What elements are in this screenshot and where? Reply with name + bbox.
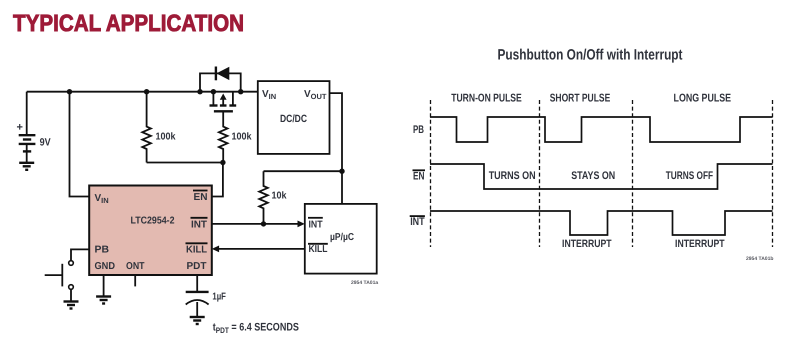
ground capacitor [190, 317, 205, 324]
waveform EN [430, 164, 773, 189]
svg-text:INT: INT [309, 219, 323, 230]
svg-text:SHORT PULSE: SHORT PULSE [550, 92, 611, 104]
label INT [410, 216, 425, 228]
label EN [413, 170, 426, 182]
svg-text:PB: PB [95, 245, 110, 256]
resistor R1 100k [142, 92, 176, 163]
node EN junction [220, 160, 225, 165]
svg-text:100k: 100k [156, 132, 176, 143]
svg-text:tPDT = 6.4 SECONDS: tPDT = 6.4 SECONDS [213, 322, 299, 336]
svg-text:TYPICAL APPLICATION: TYPICAL APPLICATION [13, 10, 244, 36]
node 100k1 top junction [144, 89, 149, 94]
capacitor C1 1uF [186, 292, 226, 318]
timing dashed line 2 [539, 100, 541, 247]
node diode right junction [238, 89, 243, 94]
label TURNS OFF [666, 170, 713, 182]
resistor R2 100k [219, 111, 252, 162]
svg-text:2954 TA01b: 2954 TA01b [746, 256, 773, 262]
wire ONT stub [134, 275, 136, 286]
wire VOUT rail to uP top [341, 171, 343, 204]
svg-text:EN: EN [194, 192, 208, 203]
label LONG PULSE [674, 92, 732, 104]
svg-text:PB: PB [413, 124, 424, 136]
svg-text:TURNS OFF: TURNS OFF [666, 170, 713, 182]
svg-text:GND: GND [95, 261, 116, 272]
transistor Q1 PMOS [210, 92, 237, 112]
svg-text:INTERRUPT: INTERRUPT [675, 238, 725, 250]
svg-text:+: + [17, 122, 23, 134]
svg-text:LONG PULSE: LONG PULSE [674, 92, 732, 104]
wire PB pin to switch [71, 249, 89, 260]
wire KILL line with arrow [212, 246, 305, 253]
label INTERRUPT 1 [562, 238, 612, 250]
svg-text:STAYS ON: STAYS ON [571, 170, 615, 182]
label TURNS ON [489, 170, 536, 182]
resistor R3 10k [259, 171, 287, 224]
label SHORT PULSE [550, 92, 611, 104]
node diode left junction [197, 89, 202, 94]
wire VOUT to rail [330, 93, 343, 171]
wire R1 bottom to EN node [147, 162, 223, 164]
svg-text:KILL: KILL [186, 244, 207, 255]
label tPDT time [213, 322, 299, 336]
switch S1 pushbutton [45, 261, 74, 290]
timing dashed line 3 [632, 100, 634, 247]
battery BT1 9V [17, 92, 51, 163]
diode D1 body diode [200, 67, 241, 92]
svg-text:INT: INT [410, 216, 425, 228]
timing diagram title [498, 47, 683, 64]
waveform PB [430, 117, 773, 142]
svg-text:TURNS ON: TURNS ON [489, 170, 536, 182]
svg-text:10k: 10k [272, 191, 287, 202]
wire VOUT rail horizontal [264, 170, 343, 172]
wire GND pin to ground [103, 275, 105, 297]
svg-text:KILL: KILL [309, 244, 328, 255]
svg-text:1µF: 1µF [212, 292, 226, 303]
svg-text:2954 TA01a: 2954 TA01a [351, 280, 378, 286]
ground GND pin [96, 297, 111, 304]
wire top rail [27, 91, 258, 93]
op-amp U2 DC/DC block [258, 81, 330, 154]
wire EN node to EN pin [212, 163, 223, 197]
svg-text:PDT: PDT [187, 261, 207, 272]
waveform INT [430, 211, 773, 235]
svg-text:ONT: ONT [126, 261, 145, 272]
wire INT line with arrow [212, 221, 305, 228]
IC U3 uP/uC block [305, 204, 377, 274]
label 2954 TA01a [351, 280, 378, 286]
svg-text:9V: 9V [40, 137, 51, 149]
label PB [413, 124, 424, 136]
wire PDT pin to cap [196, 275, 198, 292]
svg-text:LTC2954-2: LTC2954-2 [131, 216, 175, 227]
svg-text:INT: INT [191, 219, 207, 230]
node battery-rail junction [67, 89, 72, 94]
svg-text:TURN-ON PULSE: TURN-ON PULSE [451, 92, 522, 104]
node INT junction [261, 221, 266, 226]
title TYPICAL APPLICATION [13, 10, 244, 36]
wire rail to VIN pin [70, 92, 90, 197]
IC U1 LTC2954-2 [89, 186, 212, 276]
timing dashed line 4 [772, 100, 774, 247]
svg-text:Pushbutton On/Off with Interru: Pushbutton On/Off with Interrupt [498, 47, 683, 64]
label TURN-ON PULSE [451, 92, 522, 104]
node mosfet source junction [211, 89, 216, 94]
svg-text:INTERRUPT: INTERRUPT [562, 238, 612, 250]
svg-text:µP/µC: µP/µC [330, 232, 354, 243]
timing dashed line 1 [430, 100, 432, 247]
svg-text:100k: 100k [232, 132, 252, 143]
svg-text:EN: EN [413, 171, 425, 183]
label INTERRUPT 2 [675, 238, 725, 250]
node VOUT rail junction [339, 169, 344, 174]
label 2954 TA01b [746, 256, 773, 262]
label STAYS ON [571, 170, 615, 182]
ground battery [19, 163, 34, 170]
ground switch [64, 302, 79, 309]
wire switch to ground [70, 289, 72, 301]
svg-text:DC/DC: DC/DC [280, 113, 307, 125]
